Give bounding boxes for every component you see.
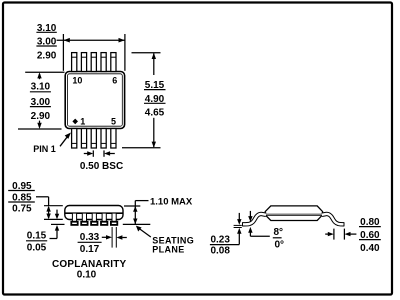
divider line 2 (left stack) (30, 106, 51, 108)
dimension right height: extension line bottom (122, 147, 161, 149)
PIN 1 leader arrow (60, 133, 71, 147)
svg-text:0.75: 0.75 (12, 204, 32, 215)
svg-text:10: 10 (72, 75, 82, 85)
dimension left height: extension line bottom (18, 128, 62, 130)
package body (top view) outer outline (65, 72, 124, 129)
left gull-wing lead (243, 214, 266, 224)
seating plane line right segment (123, 223, 151, 225)
divider line (left stack) (30, 91, 51, 93)
divider line 2 (0.80 stack) (359, 239, 381, 241)
svg-text:0.50 BSC: 0.50 BSC (80, 161, 123, 172)
dimension right height: extension line top (132, 52, 161, 54)
body bottom extension line (side view) (44, 218, 63, 220)
svg-text:1.10 MAX: 1.10 MAX (150, 196, 193, 207)
dimension top width: dimension line with leader (57, 39, 125, 41)
svg-text:0.05: 0.05 (27, 242, 47, 253)
svg-text:0.15: 0.15 (27, 231, 47, 242)
package body (top view) inner outline (68, 74, 123, 126)
svg-text:3.10: 3.10 (31, 82, 51, 93)
svg-text:0.33: 0.33 (80, 232, 100, 243)
end view parting line upper (265, 213, 322, 215)
lead 4 (bottom row) (101, 129, 106, 149)
dimension 0.80/0.60/0.40: left arrow (325, 232, 334, 236)
divider line (0.15 stack) (26, 240, 47, 242)
divider line (right stack) (144, 89, 166, 91)
dimension left height: top arrow (37, 72, 41, 79)
divider line 2 (top stack) (36, 45, 56, 47)
dimension 0.50 BSC: left arrow (84, 151, 93, 155)
lead 7 (top row) (101, 53, 106, 72)
lead 10 (top row) (72, 53, 77, 72)
divider line (top stack) (36, 31, 56, 33)
svg-text:2.90: 2.90 (37, 50, 57, 61)
side lead 1 (71, 213, 77, 225)
svg-text:PIN 1: PIN 1 (33, 144, 56, 154)
dimension 0.33/0.17: right extension line (115, 227, 117, 248)
pin 1 index marker (72, 119, 78, 125)
body top extension line (side view) (44, 205, 63, 207)
seating plane line left segment (51, 223, 65, 225)
lead 2 (bottom row) (81, 129, 86, 149)
svg-text:4.65: 4.65 (145, 108, 165, 119)
dimension 0.50 BSC: left tick (92, 150, 94, 156)
svg-text:2.90: 2.90 (31, 111, 51, 122)
lead 8 (top row) (91, 53, 96, 72)
end view parting line lower (265, 215, 322, 217)
angle dimension: upper arrow (248, 211, 252, 222)
divider line (0.23 stack, extends as leader) (210, 244, 239, 246)
left lead tip end cap (242, 222, 244, 226)
SEATING PLANE leader arrow (136, 226, 151, 237)
svg-text:PLANE: PLANE (152, 245, 184, 255)
body parting line (side view) (65, 212, 122, 214)
dimension 0.50 BSC: right tick (103, 150, 105, 156)
divider line (angle stack) (273, 237, 282, 239)
dimension 0.33/0.17: left arrow (102, 235, 112, 239)
svg-text:0.08: 0.08 (210, 245, 230, 256)
dimension 0.23/0.08: lower arrow with leader (237, 228, 241, 245)
dimension 0.23/0.08: tick lines (234, 225, 242, 227)
dimension 0.80/0.60/0.40: left tick (333, 229, 335, 240)
svg-text:0°: 0° (275, 239, 285, 250)
lead 9 (top row) (81, 53, 86, 72)
dimension top width: extension line left (62, 34, 64, 71)
dimension top width: left arrowhead (64, 38, 70, 43)
svg-text:5: 5 (111, 116, 116, 126)
dimension 0.80/0.60/0.40: right tick (343, 229, 345, 240)
dimension right height: bottom arrow segment (152, 118, 156, 148)
lead 5 (bottom row) (111, 129, 116, 149)
side lead 2 (81, 213, 87, 225)
side lead 5 (111, 213, 117, 225)
divider line 2 (0.95 stack) (8, 201, 35, 203)
dimension 1.10 MAX: arrows (133, 206, 137, 224)
right gull-wing lead (322, 214, 344, 224)
svg-text:0.40: 0.40 (360, 243, 380, 254)
dimension 0.23/0.08: upper arrow (237, 213, 241, 225)
dimension right height: top arrow segment (152, 53, 156, 75)
dimension 0.15/0.05: upper arrow (55, 210, 59, 220)
dimension 0.33/0.17: right arrow (116, 235, 126, 239)
divider line (0.80 stack) (359, 226, 381, 228)
package body (side view) (65, 206, 123, 220)
right lead tip end cap (343, 222, 345, 226)
svg-text:0.10: 0.10 (77, 269, 97, 280)
dimension 0.33/0.17: left extension line (111, 227, 113, 248)
dimension 0.15/0.05: lower arrow (50, 225, 60, 239)
svg-text:COPLANARITY: COPLANARITY (52, 259, 127, 270)
dimension 0.95/0.85/0.75: double arrow (46, 206, 50, 220)
lead 1 (bottom row) (72, 129, 77, 149)
lead 3 (bottom row) (91, 129, 96, 149)
dimension 0.95/0.85/0.75: leader (36, 197, 49, 206)
dimension 1.10 MAX: leader (135, 201, 148, 224)
lead 6 (top row) (111, 53, 116, 72)
divider line (0.33 stack) (78, 241, 102, 243)
side lead 3 (91, 213, 97, 225)
dimension 0.80/0.60/0.40: right arrow (345, 232, 357, 236)
dimension 1.10 MAX: top extension line (124, 205, 140, 207)
divider line (0.95 stack) (8, 190, 35, 192)
dimension left height: extension line top (25, 71, 64, 73)
svg-text:6: 6 (112, 75, 117, 85)
divider line 2 (right stack) (144, 102, 166, 104)
dimension 0.50 BSC: right arrow (104, 151, 115, 155)
side lead 4 (101, 213, 107, 225)
svg-text:1: 1 (80, 116, 85, 126)
angle dimension: lower arrow with 0-deg line (248, 227, 270, 236)
svg-text:8°: 8° (274, 227, 284, 238)
svg-text:0.17: 0.17 (80, 244, 100, 255)
package body (end view) octagon (265, 206, 322, 221)
dimension top width: right arrowhead (119, 38, 125, 43)
dimension left height: bottom arrow (37, 121, 41, 129)
dimension top width: extension line right (124, 34, 126, 71)
SEATING PLANE label (152, 236, 194, 255)
